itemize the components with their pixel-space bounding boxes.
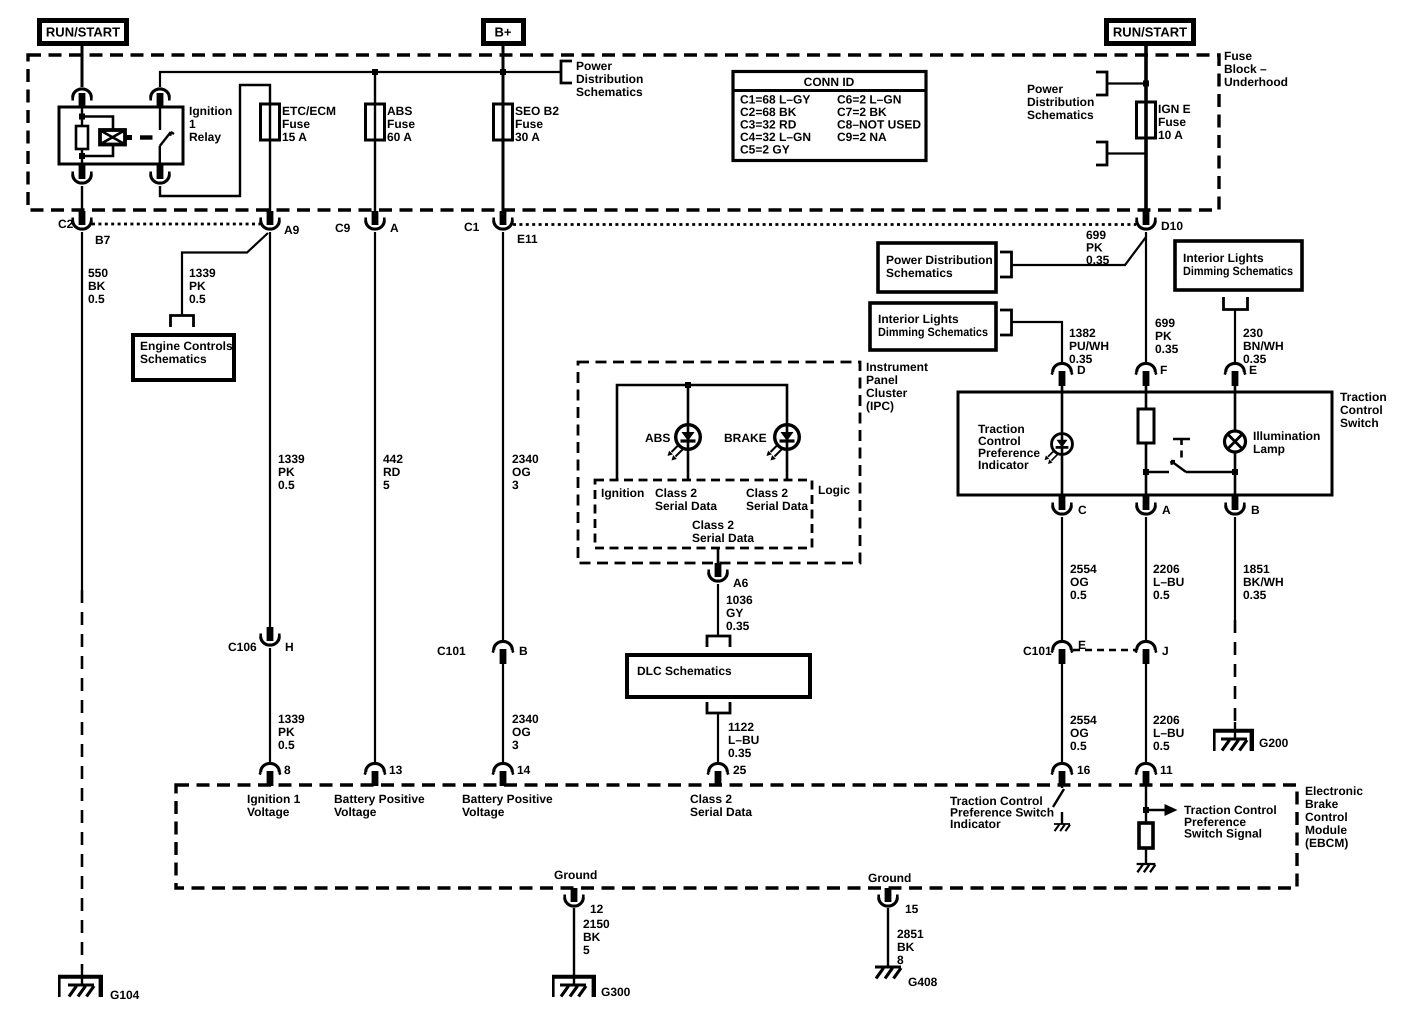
wire bracket to IGN E wire bottom	[1107, 152, 1146, 154]
svg-text:1851: 1851	[1243, 562, 1270, 576]
svg-text:C: C	[1078, 503, 1087, 517]
connector C	[1053, 496, 1072, 514]
label Traction Control Preference Switch Signal	[1184, 803, 1277, 841]
label 1851 BK/WH 0.35	[1243, 562, 1284, 602]
EBCM indicator switch blade	[1053, 785, 1064, 807]
label Engine Controls Schematics	[140, 339, 233, 366]
connector C101 B	[493, 641, 514, 664]
svg-text:1: 1	[189, 117, 196, 131]
bracket power distribution top right	[1096, 72, 1107, 95]
TCS switch blade	[1171, 461, 1186, 472]
svg-text:2851: 2851	[897, 927, 924, 941]
svg-text:0.5: 0.5	[1153, 588, 1170, 602]
label 2554 OG 0.5	[1070, 562, 1097, 602]
fuse ABS	[366, 104, 385, 140]
svg-text:60 A: 60 A	[387, 130, 412, 144]
svg-text:0.5: 0.5	[1070, 588, 1087, 602]
svg-text:G408: G408	[908, 975, 938, 989]
svg-text:Indicator: Indicator	[950, 817, 1001, 831]
svg-text:Dimming Schematics: Dimming Schematics	[1183, 264, 1293, 278]
wire B+ down	[502, 45, 505, 212]
svg-text:B+: B+	[495, 25, 512, 40]
label Interior Lights Dimming Schematics right	[1183, 251, 1293, 278]
wire ILDS right to E	[1234, 310, 1236, 365]
label 699 PK 0.35 lower	[1155, 316, 1179, 356]
bracket power distribution bottom right	[1096, 142, 1107, 165]
wire RUN/START right down	[1144, 45, 1148, 212]
svg-text:Brake: Brake	[1305, 797, 1339, 811]
svg-text:0.5: 0.5	[189, 292, 206, 306]
wire switch to lamp leg	[1186, 471, 1235, 474]
svg-text:0.35: 0.35	[726, 619, 750, 633]
wire RUN/START left down	[81, 45, 84, 87]
resistor TCS	[1138, 409, 1154, 443]
EBCM indicator switch ground	[1054, 812, 1070, 831]
svg-text:Schematics: Schematics	[1027, 108, 1094, 122]
wire B solid down	[1234, 517, 1236, 620]
wire PDS bracket to D10	[1012, 237, 1147, 265]
node bus-ABS junction	[372, 69, 378, 75]
label Battery Positive Voltage 1	[334, 792, 425, 819]
relay coil wire top	[81, 107, 83, 126]
svg-text:1339: 1339	[278, 452, 305, 466]
dashed line C101 E to J	[1073, 649, 1136, 652]
svg-text:16: 16	[1077, 763, 1091, 777]
label 1339 PK 0.5 lower	[278, 712, 305, 752]
BRAKE indicator LED	[767, 425, 800, 461]
svg-text:2554: 2554	[1070, 562, 1097, 576]
svg-text:Fuse: Fuse	[387, 117, 415, 131]
svg-text:Ignition 1: Ignition 1	[247, 792, 301, 806]
svg-text:A9: A9	[284, 223, 300, 237]
label 2340 OG 3	[512, 452, 539, 492]
svg-text:Power Distribution: Power Distribution	[886, 253, 993, 267]
svg-text:G104: G104	[110, 988, 140, 1002]
svg-text:Schematics: Schematics	[576, 85, 643, 99]
B+ tag	[484, 21, 524, 44]
label 1382 PU/WH 0.35	[1069, 326, 1109, 366]
label 230 BN/WH 0.35	[1243, 326, 1284, 366]
EBCM resistor ground	[1137, 848, 1156, 872]
svg-text:BN/WH: BN/WH	[1243, 339, 1284, 353]
node switch junction A	[1143, 469, 1149, 475]
label Interior Lights Dimming Schematics left	[878, 312, 988, 339]
wire ILDS bracket to D	[1012, 322, 1063, 364]
svg-text:2206: 2206	[1153, 562, 1180, 576]
svg-text:L–BU: L–BU	[1153, 726, 1184, 740]
svg-text:BK: BK	[88, 279, 106, 293]
wire F pin stub	[1145, 384, 1148, 393]
svg-text:PU/WH: PU/WH	[1069, 339, 1109, 353]
svg-text:BRAKE: BRAKE	[724, 431, 767, 445]
relay switch fixed contact top	[159, 107, 161, 130]
svg-text:1036: 1036	[726, 593, 753, 607]
svg-text:0.5: 0.5	[278, 738, 295, 752]
svg-text:PK: PK	[1155, 329, 1172, 343]
RUN/START tag left	[40, 21, 127, 44]
svg-text:1339: 1339	[189, 266, 216, 280]
svg-text:30 A: 30 A	[515, 130, 540, 144]
svg-text:H: H	[285, 640, 294, 654]
fuse block underhood dashed box	[28, 55, 1219, 210]
CONN ID table	[733, 72, 926, 161]
connector pin 15	[879, 888, 898, 906]
label 2554 OG 0.5 lower	[1070, 713, 1097, 753]
svg-text:PK: PK	[278, 465, 295, 479]
svg-text:Battery Positive: Battery Positive	[462, 792, 553, 806]
relay coil wire bottom	[81, 149, 83, 164]
ABS indicator LED	[668, 425, 701, 461]
svg-text:A6: A6	[733, 576, 749, 590]
label Traction Control Preference Switch Indicator	[950, 794, 1054, 831]
label Traction Control Preference Indicator	[978, 422, 1040, 472]
node relay coil bottom junction	[79, 153, 85, 159]
svg-text:SEO B2: SEO B2	[515, 104, 559, 118]
svg-text:25: 25	[733, 763, 747, 777]
label IGN E Fuse 10 A	[1158, 102, 1191, 142]
svg-text:RD: RD	[383, 465, 401, 479]
svg-text:B7: B7	[95, 233, 111, 247]
svg-text:Voltage: Voltage	[247, 805, 290, 819]
bracket power distribution schematics top	[561, 61, 572, 83]
svg-text:IGN E: IGN E	[1158, 102, 1191, 116]
logic dashed box	[595, 480, 812, 548]
svg-text:Ground: Ground	[554, 868, 597, 882]
svg-text:C101: C101	[1023, 644, 1052, 658]
box Engine Controls Schematics	[133, 335, 234, 380]
svg-text:GY: GY	[726, 606, 743, 620]
svg-text:L–BU: L–BU	[728, 733, 759, 747]
wire A9 to C106	[269, 232, 271, 627]
relay switch bottom stub	[159, 146, 161, 164]
svg-text:Fuse: Fuse	[1158, 115, 1186, 129]
svg-text:C101: C101	[437, 644, 466, 658]
svg-text:Fuse: Fuse	[282, 117, 310, 131]
svg-text:Control: Control	[1340, 403, 1383, 417]
svg-text:Fuse: Fuse	[1224, 49, 1252, 63]
connector B	[1226, 496, 1245, 514]
connector C2	[73, 211, 92, 229]
connector C101 J	[1136, 641, 1157, 664]
svg-text:442: 442	[383, 452, 403, 466]
wire F into resistor	[1145, 392, 1148, 409]
label 2851 BK 8	[897, 927, 924, 967]
label Power Distribution Schematics right	[1027, 82, 1094, 122]
wire E pin stub	[1234, 384, 1237, 393]
label Class 2 Serial Data center	[692, 518, 754, 545]
connector pin 13	[365, 763, 386, 786]
label 2150 BK 5	[583, 917, 610, 957]
svg-text:Schematics: Schematics	[140, 352, 207, 366]
box DLC Schematics	[627, 655, 810, 697]
wire bus to ABS fuse	[374, 72, 376, 212]
svg-text:Underhood: Underhood	[1224, 75, 1288, 89]
svg-text:1122: 1122	[728, 720, 754, 734]
svg-text:13: 13	[389, 763, 403, 777]
relay switch top connector	[151, 89, 170, 107]
wire B dashed to G200	[1234, 620, 1237, 729]
node IGN E bracket junction	[1143, 81, 1149, 87]
ground G300	[552, 908, 596, 997]
svg-text:2150: 2150	[583, 917, 610, 931]
svg-text:550: 550	[88, 266, 108, 280]
wire 550 BK dashed to G104	[81, 590, 84, 969]
wire bus B+ feed	[160, 72, 503, 87]
svg-text:Relay: Relay	[189, 130, 221, 144]
svg-text:F: F	[1160, 363, 1167, 377]
svg-text:15: 15	[905, 902, 919, 916]
svg-text:OG: OG	[512, 725, 531, 739]
svg-text:699: 699	[1155, 316, 1175, 330]
svg-text:A: A	[1162, 503, 1171, 517]
svg-text:PK: PK	[278, 725, 295, 739]
wire logic to A6	[717, 548, 720, 563]
svg-text:RUN/START: RUN/START	[46, 25, 120, 40]
svg-text:8: 8	[897, 953, 904, 967]
svg-text:Dimming Schematics: Dimming Schematics	[878, 325, 988, 339]
bracket ILDS box left	[1000, 310, 1012, 335]
svg-text:Switch: Switch	[1340, 416, 1379, 430]
connector C106	[261, 627, 280, 645]
svg-text:C2: C2	[58, 217, 74, 231]
svg-text:Interior Lights: Interior Lights	[1183, 251, 1264, 265]
svg-text:BK: BK	[897, 940, 915, 954]
svg-text:Class 2: Class 2	[692, 518, 734, 532]
svg-text:0.35: 0.35	[728, 746, 752, 760]
svg-text:(EBCM): (EBCM)	[1305, 836, 1348, 850]
svg-text:10 A: 10 A	[1158, 128, 1183, 142]
TCS switch contact lead	[1146, 471, 1169, 474]
relay coil bottom connector	[73, 165, 92, 183]
svg-text:0.5: 0.5	[88, 292, 105, 306]
svg-text:5: 5	[583, 943, 590, 957]
relay coil element	[100, 130, 125, 145]
svg-text:Illumination: Illumination	[1253, 429, 1320, 443]
svg-text:B: B	[519, 644, 528, 658]
bracket DLC bottom	[707, 702, 730, 713]
svg-text:OG: OG	[1070, 575, 1089, 589]
svg-text:PK: PK	[189, 279, 206, 293]
svg-text:C5=2 GY: C5=2 GY	[740, 143, 790, 157]
connector pin 12	[565, 888, 584, 906]
svg-text:0.35: 0.35	[1155, 342, 1179, 356]
wire D into indicator	[1061, 392, 1064, 496]
bracket PDS box	[1000, 252, 1012, 277]
svg-text:OG: OG	[512, 465, 531, 479]
svg-text:2206: 2206	[1153, 713, 1180, 727]
svg-text:230: 230	[1243, 326, 1263, 340]
svg-text:J: J	[1162, 644, 1169, 658]
svg-text:Battery Positive: Battery Positive	[334, 792, 425, 806]
svg-text:Serial Data: Serial Data	[655, 499, 717, 513]
label Class 2 Serial Data EBCM	[690, 792, 752, 819]
signal arrow	[1146, 804, 1178, 816]
connector F	[1136, 363, 1157, 386]
svg-text:ABS: ABS	[645, 431, 670, 445]
wire bus to power distribution reference	[503, 71, 561, 73]
relay switch bottom connector	[151, 165, 170, 183]
svg-text:Class 2: Class 2	[746, 486, 788, 500]
svg-text:1382: 1382	[1069, 326, 1096, 340]
wire resistor to switch junction	[1145, 443, 1148, 496]
label Electronic Brake Control Module (EBCM)	[1305, 784, 1363, 850]
bracket engine controls	[171, 316, 194, 328]
label Power Distribution Schematics box	[886, 253, 993, 280]
connector D10	[1137, 211, 1156, 229]
bracket DLC top	[707, 636, 730, 647]
svg-text:A: A	[390, 221, 399, 235]
svg-text:G200: G200	[1259, 736, 1289, 750]
svg-text:Power: Power	[1027, 82, 1063, 96]
svg-text:ABS: ABS	[387, 104, 412, 118]
svg-text:0.5: 0.5	[1070, 739, 1087, 753]
svg-text:(IPC): (IPC)	[866, 399, 894, 413]
label Ignition 1 Relay	[189, 104, 232, 144]
label Traction Control Switch	[1340, 390, 1387, 430]
svg-text:Module: Module	[1305, 823, 1347, 837]
svg-text:2340: 2340	[512, 712, 539, 726]
svg-text:Control: Control	[1305, 810, 1348, 824]
label ABS Fuse 60 A	[387, 104, 415, 144]
wire ABS led drop	[687, 385, 690, 480]
svg-text:Class 2: Class 2	[655, 486, 697, 500]
label 1036 GY 0.35	[726, 593, 753, 633]
wire C101 E to pin 16	[1061, 664, 1063, 764]
svg-text:8: 8	[284, 763, 291, 777]
svg-text:14: 14	[517, 763, 531, 777]
svg-text:Cluster: Cluster	[866, 386, 908, 400]
label 699 PK 0.35 upper	[1086, 228, 1110, 267]
svg-text:DLC Schematics: DLC Schematics	[637, 664, 732, 678]
node bus-B+ junction	[500, 69, 506, 75]
fuse SEO B2	[494, 104, 513, 140]
svg-text:C1: C1	[464, 220, 480, 234]
svg-text:3: 3	[512, 738, 519, 752]
bracket ILDS right below box	[1224, 297, 1248, 310]
svg-text:Serial Data: Serial Data	[746, 499, 808, 513]
svg-text:Switch Signal: Switch Signal	[1184, 827, 1262, 841]
box Traction Control Switch	[958, 392, 1332, 495]
svg-text:Voltage: Voltage	[334, 805, 377, 819]
label Power Distribution Schematics top	[576, 59, 643, 99]
label ETC/ECM Fuse 15 A	[282, 104, 336, 144]
svg-text:Class 2: Class 2	[690, 792, 732, 806]
wire C106 to pin 8	[269, 648, 271, 764]
wire C101 B to pin 14	[502, 664, 504, 764]
connector D	[1052, 363, 1073, 386]
label 2206 L-BU 0.5	[1153, 562, 1184, 602]
svg-text:0.35: 0.35	[1243, 588, 1267, 602]
svg-text:Voltage: Voltage	[462, 805, 505, 819]
fuse ETC/ECM	[261, 104, 280, 140]
svg-text:5: 5	[383, 478, 390, 492]
svg-text:Serial Data: Serial Data	[690, 805, 752, 819]
IPC dashed box	[578, 362, 860, 563]
svg-text:Ignition: Ignition	[601, 486, 644, 500]
box Interior Lights Dimming Schematics left	[870, 303, 996, 350]
svg-text:0.5: 0.5	[1153, 739, 1170, 753]
wire D10 down to F	[1145, 232, 1147, 364]
fuse IGN E	[1137, 102, 1156, 138]
wire C1 to C101 B	[502, 232, 504, 642]
connector A	[1137, 496, 1156, 514]
svg-text:E: E	[1249, 363, 1257, 377]
svg-text:Panel: Panel	[866, 373, 898, 387]
EBCM dashed box	[176, 785, 1297, 888]
connector E	[1225, 363, 1246, 386]
label Class 2 Serial Data right	[746, 486, 808, 513]
label Ignition 1 Voltage	[247, 792, 301, 819]
connector C101 E	[1052, 641, 1073, 664]
TCS switch actuator T	[1173, 439, 1190, 445]
dotted line C1 to D10	[513, 223, 1136, 226]
svg-text:D: D	[1077, 363, 1086, 377]
svg-text:Interior Lights: Interior Lights	[878, 312, 959, 326]
svg-text:L–BU: L–BU	[1153, 575, 1184, 589]
wire E into lamp	[1234, 392, 1237, 496]
ground G104	[58, 969, 103, 997]
connector pin 14	[493, 763, 514, 786]
RUN/START tag right	[1107, 21, 1194, 44]
relay coil top connector	[73, 89, 92, 107]
box Interior Lights Dimming Schematics right	[1175, 241, 1302, 290]
IPC internal bus wire	[617, 385, 787, 480]
svg-text:C9: C9	[335, 221, 351, 235]
ignition 1 relay box	[59, 107, 183, 164]
svg-text:12: 12	[590, 902, 604, 916]
svg-text:Schematics: Schematics	[886, 266, 953, 280]
svg-text:0.5: 0.5	[278, 478, 295, 492]
wire A9 branch diagonal	[182, 233, 268, 315]
svg-text:Indicator: Indicator	[978, 458, 1029, 472]
connector A6	[709, 563, 728, 581]
node relay coil top junction	[79, 114, 85, 120]
connector pin 16	[1052, 763, 1073, 786]
svg-text:Electronic: Electronic	[1305, 784, 1363, 798]
svg-text:RUN/START: RUN/START	[1113, 25, 1187, 40]
svg-text:BK/WH: BK/WH	[1243, 575, 1284, 589]
svg-text:BK: BK	[583, 930, 601, 944]
svg-text:1339: 1339	[278, 712, 305, 726]
wire 2851 BK to G408	[887, 908, 889, 967]
svg-text:CONN ID: CONN ID	[804, 75, 855, 89]
wire relay switch to ETC fuse	[160, 85, 270, 212]
EBCM signal wire from pin 11	[1145, 785, 1147, 823]
svg-text:Traction: Traction	[1340, 390, 1387, 404]
TCS switch actuator dashes	[1180, 451, 1183, 458]
label 2206 L-BU 0.5 lower	[1153, 713, 1184, 753]
label Battery Positive Voltage 2	[462, 792, 553, 819]
relay switch blade	[160, 132, 174, 146]
traction control preference indicator LED	[1045, 434, 1073, 464]
EBCM pulldown resistor	[1139, 823, 1153, 848]
box Power Distribution Schematics	[878, 243, 996, 292]
illumination lamp	[1225, 431, 1246, 452]
label 1339 PK 0.5	[278, 452, 305, 492]
label 1122 L-BU 0.35	[728, 720, 759, 760]
svg-text:Engine Controls: Engine Controls	[140, 339, 233, 353]
svg-text:Distribution: Distribution	[576, 72, 643, 86]
connector pin 25	[708, 763, 729, 786]
connector pin 8	[260, 763, 281, 786]
svg-text:Block –: Block –	[1224, 62, 1267, 76]
wire C101 J to pin 11	[1145, 664, 1147, 764]
dotted line C2 to A9	[92, 223, 260, 226]
wire relay coil to C2	[81, 186, 83, 212]
svg-text:Power: Power	[576, 59, 612, 73]
label 550 BK 0.5	[88, 266, 108, 306]
relay coil to switch link lead	[125, 135, 132, 140]
